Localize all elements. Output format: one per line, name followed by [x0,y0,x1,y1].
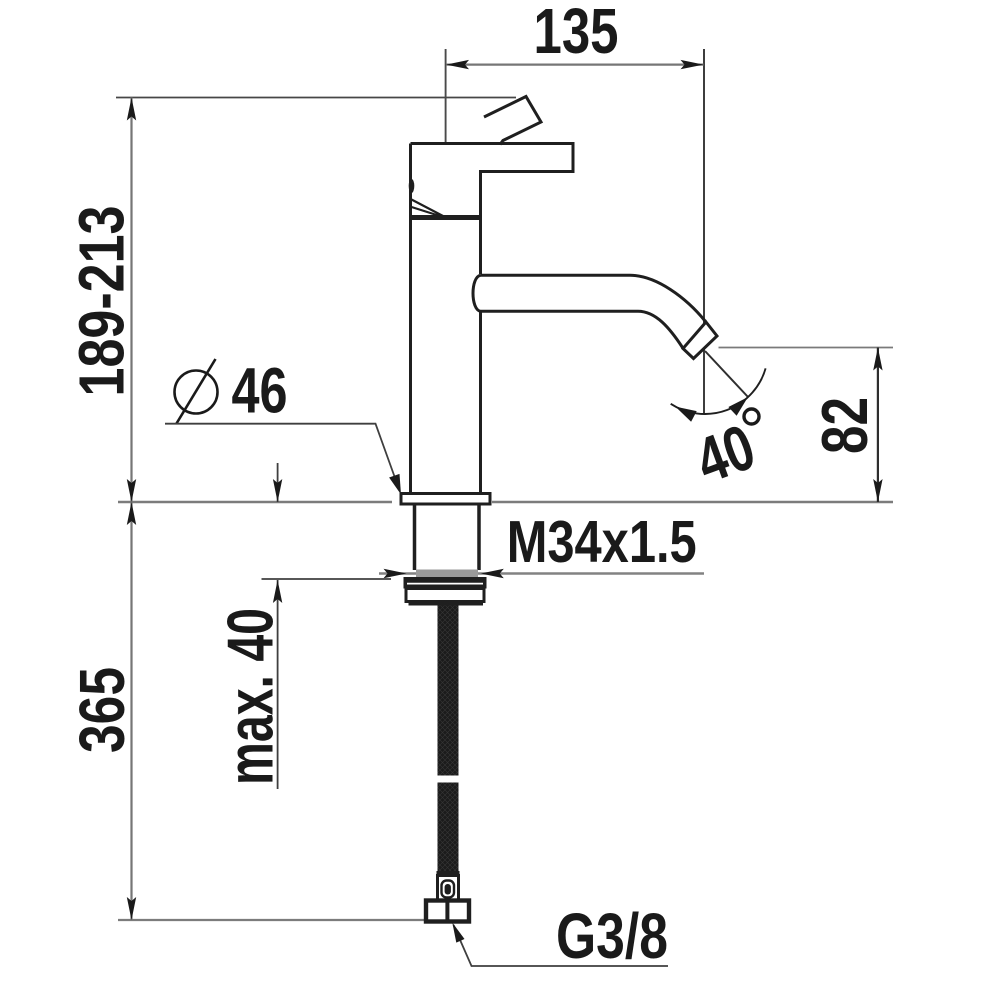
svg-text:365: 365 [66,667,138,753]
faucet head top bar [411,144,574,275]
spout bottom edge [481,311,683,347]
max. 40 reference line [262,578,392,580]
wedge mark [412,200,444,218]
svg-text:189-213: 189-213 [65,206,137,397]
swivel radius diagonal [705,351,748,397]
svg-text:G3/8: G3/8 [556,900,668,972]
column right wall below spout [479,311,482,494]
arc arrowhead right [728,397,748,416]
seal washer [416,570,478,578]
aerator tip [683,322,717,359]
lever handle [484,97,541,145]
svg-text:46: 46 [232,354,288,426]
dimension line 189-213 [130,98,132,503]
svg-text:135: 135 [534,0,619,67]
arc arrowhead left [675,407,696,422]
M34x1.5 dimension line [379,572,704,574]
flexible hose lower segment [438,783,459,872]
svg-text:82: 82 [808,397,881,454]
threaded shank walls [415,504,480,570]
extension line top (189-213) [116,97,516,99]
svg-text:M34x1.5: M34x1.5 [507,508,697,575]
extension line 82 top [719,347,894,349]
right extension line (spout tip axis) [703,49,705,415]
hose collar [437,871,460,876]
dimension line 365 [130,502,132,920]
swivel arc 40 degrees [671,368,766,414]
spout left cap [473,275,481,311]
dimension max. 40 lower arrow [277,580,279,789]
joint thick line [409,215,482,220]
faucet left wall [409,144,412,495]
set screw blob [409,179,415,193]
svg-text:max. 40: max. 40 [214,608,287,785]
leader line diameter 46 [165,424,399,489]
locknut bottom bar [409,600,484,606]
leader line G3/8 [454,925,669,966]
deck line [118,501,893,503]
dimension line 82 [877,348,879,503]
hex nut G3/8 [426,901,469,922]
centerline extension (faucet axis) [445,49,447,144]
spout top edge [481,275,706,321]
dimension line 135 [446,63,704,65]
escutcheon flange [401,494,490,505]
diameter symbol slash [177,359,216,424]
flexible hose upper segment [438,606,459,776]
diameter symbol circle [175,371,218,414]
locknut top band [404,577,487,589]
dimension max. 40 upper arrow [277,463,279,502]
hose end fitting [438,876,459,901]
locknut body [406,589,484,602]
bottom reference line [118,919,426,921]
